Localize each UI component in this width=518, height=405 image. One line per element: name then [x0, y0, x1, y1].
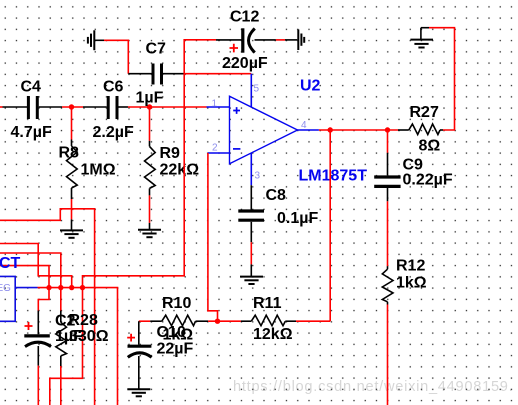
svg-text:C12: C12: [230, 9, 259, 26]
wire input left to C4: [0, 106, 27, 108]
svg-text:2: 2: [212, 143, 218, 154]
svg-text:R11: R11: [253, 295, 282, 312]
resistor R12 1kOhm: [382, 258, 426, 305]
svg-text:R28: R28: [69, 312, 98, 329]
svg-text:CT: CT: [0, 255, 21, 272]
svg-text:0.22µF: 0.22µF: [403, 172, 453, 189]
wire C12 to ground: [276, 39, 297, 41]
wire C2 to bottom edge: [37, 366, 39, 405]
resistor R9 22kOhm: [145, 141, 200, 196]
wire C4 to C6 through node: [62, 106, 107, 108]
svg-text:2.2µF: 2.2µF: [93, 124, 134, 141]
wire R27 up to ground: [421, 28, 455, 130]
resistor R8 1MOhm: [59, 140, 116, 200]
wire pin2 down to feedback node: [208, 153, 218, 321]
pin 5 lead: [251, 74, 259, 107]
svg-text:330Ω: 330Ω: [69, 328, 109, 345]
plus sign C2: [25, 322, 33, 330]
wire C9 to R12: [387, 201, 389, 266]
node row junction 4: [80, 285, 85, 290]
wire left rail y243 to node row: [0, 244, 72, 288]
wire left rail y253 to R28: [0, 253, 61, 311]
svg-text:1: 1: [212, 99, 218, 110]
wire node to R8: [71, 107, 73, 140]
svg-text:3: 3: [255, 171, 261, 182]
pin 3 lead: [251, 153, 260, 186]
wire node row horizontal: [38, 288, 118, 405]
wire C8 to ground: [250, 242, 252, 264]
wire pin3 to C8: [250, 185, 252, 209]
resistor R10 1kOhm: [150, 295, 208, 344]
svg-text:R10: R10: [162, 295, 191, 312]
node row junction 1: [46, 285, 51, 290]
wire left rail y265 to C2: [0, 266, 49, 311]
svg-text:C8: C8: [266, 187, 287, 204]
signal source box edge: [0, 255, 38, 321]
pin 4 output lead: [298, 120, 319, 131]
wire R11 to feedback vertical: [296, 320, 330, 322]
wire node to R9: [149, 107, 151, 141]
wire R10 row left: [139, 320, 150, 322]
svg-text:1MΩ: 1MΩ: [81, 162, 116, 179]
svg-text:12kΩ: 12kΩ: [253, 326, 293, 343]
svg-text:0.1µF: 0.1µF: [277, 210, 318, 227]
svg-text:4.7µF: 4.7µF: [11, 124, 52, 141]
svg-text:4: 4: [301, 120, 307, 131]
node junction output/feedback: [328, 127, 333, 132]
node row junction 2: [58, 285, 63, 290]
wire supply vertical to C12 and bottom rail: [50, 40, 216, 405]
node junction output/C9: [385, 127, 390, 132]
svg-text:5: 5: [254, 84, 260, 95]
wire R9 to ground: [149, 195, 151, 223]
wire feedback vertical: [329, 130, 331, 321]
ground under C10: [127, 389, 150, 396]
svg-text:R12: R12: [396, 258, 425, 275]
plus sign C10: [127, 334, 135, 342]
svg-text:22kΩ: 22kΩ: [160, 162, 200, 179]
op-amp U1 triangle: [230, 78, 368, 185]
ground top-left sideways: [88, 30, 104, 50]
svg-text:LM1875T: LM1875T: [299, 168, 368, 185]
capacitor C8 0.1uF: [238, 187, 318, 242]
wire R28 to bottom edge: [60, 366, 62, 405]
svg-text:U2: U2: [300, 78, 321, 95]
wire C9 branch: [387, 130, 389, 175]
svg-text:8Ω: 8Ω: [419, 138, 441, 155]
capacitor C12 220uF: [216, 9, 276, 72]
svg-text:R8: R8: [59, 145, 80, 162]
capacitor C9 0.22uF: [374, 157, 453, 202]
ground top-right: [410, 28, 433, 48]
svg-text:R27: R27: [410, 104, 439, 121]
capacitor C10 22uF: [128, 321, 194, 389]
ground under R9: [138, 223, 161, 237]
resistor R11 12kOhm: [241, 295, 296, 343]
wire ground to C7: [104, 40, 152, 73]
svg-text:220µF: 220µF: [222, 55, 268, 72]
svg-text:22µF: 22µF: [157, 341, 194, 358]
ground right of C12 sideways: [298, 29, 304, 50]
node junction C6/R9/pin1: [147, 104, 152, 109]
capacitor C4: [11, 79, 63, 142]
wire C6 to op-amp pin1: [128, 106, 207, 108]
ground under C8: [240, 264, 263, 284]
ground under R8: [60, 219, 83, 237]
svg-text:C7: C7: [146, 41, 167, 58]
wire R10 to R11: [208, 320, 241, 322]
plus sign C12: [230, 44, 239, 53]
wire C7 to op-amp pin5: [184, 73, 251, 75]
resistor R28 330Ohm: [56, 311, 109, 367]
node junction C4/C6/R8: [69, 104, 74, 109]
svg-text:1µF: 1µF: [136, 90, 164, 107]
node junction R10/R11/pin2: [215, 319, 220, 324]
capacitor C7 1uF: [136, 41, 185, 107]
pin 2 lead: [208, 143, 230, 154]
svg-text:R9: R9: [160, 145, 181, 162]
capacitor C6: [93, 79, 134, 142]
node row junction 3: [69, 285, 74, 290]
svg-text:EG: EG: [0, 283, 11, 294]
svg-text:1kΩ: 1kΩ: [396, 275, 427, 292]
svg-text:C6: C6: [103, 79, 124, 96]
wire output rail: [319, 129, 398, 131]
pin 1 lead: [207, 99, 230, 110]
capacitor C2 1uF: [24, 311, 83, 366]
svg-text:C10: C10: [157, 324, 186, 341]
wire left rail y220 to long vertical: [0, 209, 95, 405]
wire R12 to bottom edge: [387, 305, 389, 405]
resistor R27 8Ohm: [398, 104, 443, 155]
svg-text:C4: C4: [21, 79, 42, 96]
wire R8 to ground: [71, 199, 73, 219]
